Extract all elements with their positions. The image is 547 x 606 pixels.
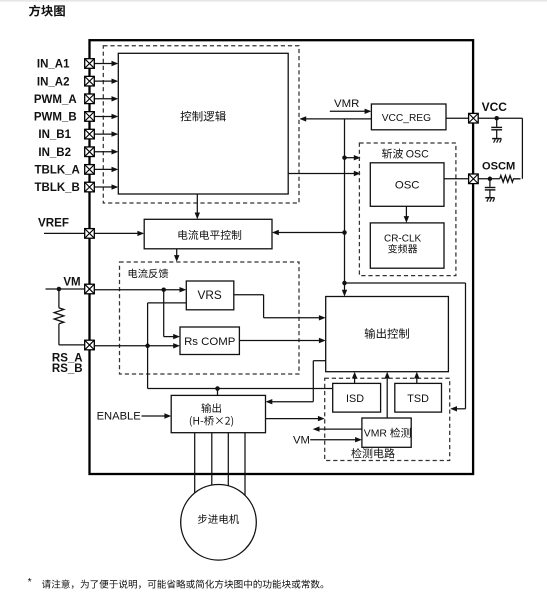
svg-text:OSC: OSC [395, 180, 420, 192]
pin VREF [85, 229, 95, 239]
label VMR 检测 [364, 428, 411, 440]
label TSD [407, 393, 429, 405]
svg-text:PWM_B: PWM_B [34, 112, 77, 124]
wire output phase 1 [194, 433, 196, 493]
svg-text:VRS: VRS [197, 288, 221, 302]
label VM (detection) [293, 434, 310, 446]
label OSCM [482, 160, 515, 172]
svg-text:VM: VM [63, 277, 80, 289]
wire output phase 2 [211, 433, 213, 485]
wire output control to output block [266, 361, 326, 405]
block Rs COMP [180, 327, 239, 355]
svg-text:IN_B2: IN_B2 [38, 147, 71, 159]
wire pin TBLK_A to control logic [94, 167, 118, 172]
wire VCC_REG to VCC pin [446, 117, 469, 119]
block VCC_REG U-REG [371, 104, 446, 130]
node VM junction [57, 287, 62, 292]
wire VREF stub [44, 232, 85, 234]
wire VCC_REG to control logic (VMR rail) [299, 116, 371, 121]
wire RS branch down to ISD [148, 346, 333, 389]
wire branch down to output block [217, 389, 219, 396]
label Rs COMP [184, 336, 235, 348]
title 方块图 (Block Diagram) [29, 5, 65, 17]
block 输出控制 (output control) [326, 297, 449, 372]
wire main VMR rail vertical [342, 119, 347, 297]
svg-text:VCC: VCC [482, 100, 508, 114]
wire control logic to current level control [195, 194, 200, 219]
label 控制逻辑 [181, 111, 226, 122]
wire VMR detection to VM label [313, 426, 362, 431]
pin PWM_B [85, 112, 95, 122]
wire output phase 4 [244, 433, 246, 496]
label 电流反馈 [129, 269, 169, 279]
label ENABLE [97, 410, 141, 422]
svg-text:ISD: ISD [346, 393, 364, 405]
pin TBLK_A [85, 165, 95, 175]
svg-text:TBLK_B: TBLK_B [35, 182, 80, 194]
pin PWM_A [85, 94, 95, 104]
label RS_A [52, 352, 83, 364]
label OSC [395, 180, 420, 192]
wire VM down to resistor [58, 289, 60, 308]
wire VRS to output control [234, 295, 326, 321]
wire pin PWM_B to control logic [94, 114, 118, 119]
label 斩波 OSC [382, 148, 429, 160]
label RS_B [52, 363, 83, 375]
wire pin IN_B2 to control logic [94, 149, 118, 154]
svg-text:IN_B1: IN_B1 [38, 129, 71, 141]
wire pin TBLK_B to control logic [94, 184, 118, 189]
svg-text:VREF: VREF [38, 217, 69, 230]
pin VM [85, 284, 95, 294]
wire main rail to current level control [272, 230, 345, 235]
wire pin IN_B1 to control logic [94, 131, 118, 136]
label 步进电机 [198, 514, 239, 524]
label 检测电路 [351, 448, 394, 458]
wire control logic to chopper OSC [288, 171, 360, 176]
wire VCC to OSCM feedback [521, 118, 523, 179]
label VRS [197, 288, 221, 302]
wire ENABLE to output block [142, 413, 172, 418]
svg-text:IN_A2: IN_A2 [37, 76, 70, 88]
svg-text:PWM_A: PWM_A [34, 94, 77, 106]
svg-text:CR-CLK: CR-CLK [384, 233, 422, 244]
wire output block to detection circuit [266, 416, 325, 421]
wire OSC to OSCM pin [444, 178, 469, 180]
label 输出 [201, 403, 220, 413]
pin IN_B1 [85, 129, 95, 139]
wire VCC pin to bypass node [478, 117, 523, 119]
wire pin IN_A1 to control logic [94, 61, 118, 66]
wire VM stub [46, 288, 85, 290]
svg-text:ENABLE: ENABLE [97, 410, 141, 422]
wire VMR into VCC_REG [330, 109, 372, 114]
pin IN_B2 [85, 147, 95, 157]
label VCC_REG [382, 113, 431, 124]
label VREF [38, 217, 69, 230]
block 电流电平控制 (current level control) [144, 219, 272, 249]
svg-text:VMR: VMR [334, 98, 359, 110]
svg-text:TBLK_A: TBLK_A [35, 165, 80, 177]
node OSCM RC junction [488, 177, 493, 182]
wire ISD to output control [352, 372, 357, 384]
svg-text:OSCM: OSCM [482, 160, 515, 172]
label VMR [334, 98, 359, 110]
stepper motor M1 (步进电机) [181, 485, 257, 561]
wire resistor to RS pin [59, 324, 85, 345]
node rail to current level control [342, 230, 347, 235]
wire pin IN_A2 to control logic [94, 78, 118, 83]
wire pin PWM_A to control logic [94, 96, 118, 101]
dashed box 检测电路 (detection circuit) [325, 378, 450, 460]
svg-text:RS_B: RS_B [52, 363, 83, 375]
label VM [63, 277, 80, 289]
block 输出 H-bridge (output) [171, 395, 265, 432]
capacitor VCC bypass [491, 118, 502, 138]
label PWM_B [34, 112, 77, 124]
chip outline [90, 40, 474, 474]
wire RS branch up to VRS [148, 303, 187, 346]
label 输出控制 [365, 328, 409, 339]
label IN_B1 [38, 129, 71, 141]
svg-text:TSD: TSD [407, 393, 429, 405]
wire current level control to current feedback [174, 249, 179, 262]
ground OSCM cap [485, 198, 494, 202]
pin IN_A2 [85, 76, 95, 86]
block CR-CLK 变频器 (CR-CLK converter) [370, 223, 444, 268]
wire RS to Rs COMP [94, 343, 180, 348]
node output-box branch junction [215, 386, 220, 391]
block 控制逻辑 (control logic) U-CTRL [118, 53, 288, 194]
svg-text:VMR: VMR [364, 429, 388, 440]
pin IN_A1 [85, 59, 95, 69]
wire rail to chopper OSC box [345, 155, 361, 160]
pin OSCM [469, 174, 479, 184]
wire OSCM pin to RC node [478, 178, 500, 180]
resistor OSCM [500, 176, 521, 183]
wire output phase 3 [227, 433, 229, 486]
node rail to chopper OSC [342, 155, 347, 160]
wire VM branch to Rs COMP [164, 290, 180, 340]
wire Rs COMP to output control [239, 338, 325, 343]
wire OSC to CR-CLK [404, 206, 409, 223]
wire VM label to VMR detection [310, 437, 362, 442]
wire TSD to output control [414, 372, 419, 384]
node RS junction [145, 344, 150, 349]
block ISD [333, 383, 381, 412]
svg-text:VM: VM [293, 434, 310, 446]
node VM-VRS junction [161, 287, 166, 292]
label ISD [346, 393, 364, 405]
pin RS_A/RS_B [85, 340, 95, 350]
pin TBLK_B [85, 182, 95, 192]
label TBLK_A [35, 165, 80, 177]
wire VM to VRS [94, 287, 186, 292]
label PWM_A [34, 94, 77, 106]
svg-text:IN_A1: IN_A1 [37, 59, 70, 71]
label IN_A1 [37, 59, 70, 71]
label CR-CLK 变频器 [384, 233, 422, 253]
label 电流电平控制 [178, 230, 241, 240]
svg-text:VCC_REG: VCC_REG [382, 113, 431, 124]
label IN_A2 [37, 76, 70, 88]
label (H-桥×2) [190, 416, 233, 427]
label IN_B2 [38, 147, 71, 159]
svg-text:Rs COMP: Rs COMP [184, 336, 235, 348]
svg-text:OSC: OSC [406, 149, 429, 161]
label TBLK_B [35, 182, 80, 194]
ground VCC cap [492, 139, 501, 143]
svg-text:*: * [28, 576, 32, 588]
dashed box around control logic [103, 46, 299, 203]
wire VREF to current level control [94, 231, 144, 236]
footnote [28, 576, 324, 589]
capacitor OSCM [485, 179, 496, 197]
block VMR 检测 (VMR detection) [362, 418, 411, 447]
dashed box 斩波 OSC (chopper OSC) [359, 143, 456, 276]
label VCC [482, 100, 508, 114]
block VRS [186, 281, 234, 310]
node VCC bypass junction [494, 116, 499, 121]
wire rail to detection circuit [345, 283, 466, 412]
block TSD [395, 383, 442, 412]
wire VMR detection to output control [385, 372, 390, 418]
resistor RS sense [54, 308, 64, 324]
dashed box 电流反馈 (current feedback) [120, 262, 300, 374]
pin VCC [469, 113, 479, 123]
block OSC U-OSC [370, 163, 444, 207]
node rail to detection route [342, 281, 347, 286]
